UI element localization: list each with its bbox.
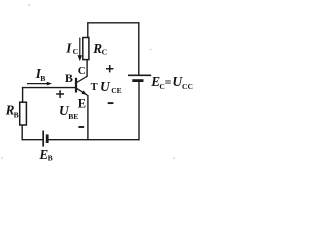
wire right upper vertical to battery + — [138, 22, 140, 74]
resistor RB body — [20, 102, 27, 125]
svg-text:E: E — [78, 96, 86, 110]
wire base horizontal — [22, 87, 76, 89]
svg-text:=: = — [165, 75, 172, 89]
svg-text:B: B — [14, 110, 19, 119]
transistor T emitter diagonal — [77, 88, 88, 95]
minus sign of UBE — [78, 126, 84, 128]
wire emitter vertical — [87, 95, 89, 140]
plus sign of UBE — [56, 90, 64, 98]
resistor RC body — [83, 38, 89, 60]
minus sign of UCE — [108, 102, 114, 104]
arrow IC head — [78, 55, 82, 61]
svg-text:CE: CE — [111, 86, 122, 95]
transistor T emitter arrowhead — [81, 90, 87, 95]
svg-text:C: C — [73, 47, 78, 56]
battery EB long positive plate — [42, 131, 44, 147]
wire collector vertical below RC — [86, 60, 88, 77]
wire right lower vertical below battery — [138, 82, 140, 140]
arrow IB head — [47, 82, 52, 86]
svg-text:C: C — [78, 65, 86, 77]
wire bottom left segment — [22, 139, 43, 141]
svg-text:CC: CC — [182, 82, 193, 91]
svg-text:BE: BE — [68, 112, 78, 121]
svg-text:T: T — [91, 82, 98, 93]
svg-text:C: C — [102, 48, 107, 57]
svg-text:B: B — [48, 153, 53, 162]
transistor T base bar — [75, 78, 77, 93]
battery EC long positive plate — [128, 74, 151, 76]
battery EB short negative plate — [46, 134, 49, 143]
arrow IC shaft — [79, 38, 81, 57]
battery EC short negative plate — [132, 79, 143, 82]
wire top horizontal — [87, 22, 139, 24]
transistor T collector diagonal — [77, 76, 88, 82]
wire collector-top vertical above RC — [87, 23, 89, 38]
plus sign of UCE — [106, 65, 113, 72]
arrow IB shaft — [27, 83, 48, 85]
svg-text:B: B — [65, 71, 73, 85]
svg-text:U: U — [100, 79, 111, 94]
svg-text:I: I — [65, 40, 72, 55]
wire bottom right segment — [48, 139, 139, 141]
wire left lower vertical — [21, 125, 23, 141]
svg-text:B: B — [40, 74, 45, 83]
wire left upper vertical — [22, 87, 24, 102]
